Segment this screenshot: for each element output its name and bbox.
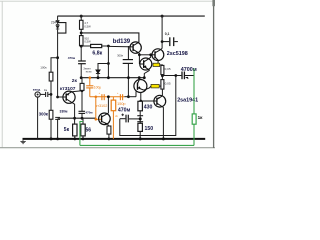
ground symbol [20, 139, 25, 144]
node dot feedback [139, 117, 142, 120]
wire [80, 64, 82, 78]
input connector J1 [35, 92, 40, 97]
svg-text:234: 234 [51, 21, 57, 25]
capacitor C 0,1 [162, 37, 178, 46]
wire Q6 emitter to 2k [72, 90, 82, 93]
capacitor C 100u orange [86, 85, 93, 87]
node dot [97, 76, 100, 79]
wire [57, 119, 59, 138]
node dot [80, 76, 83, 79]
wire Q2 collector up [149, 55, 151, 59]
wire between resistors [80, 29, 82, 35]
transistor Q2 driver [139, 58, 151, 70]
resistor R 1k green [192, 114, 196, 124]
wire 2k top [81, 78, 83, 84]
svg-text:330м: 330м [60, 110, 69, 114]
node dot on output wire [174, 74, 177, 77]
wire cap to bias wire [81, 113, 83, 118]
svg-text:0,05: 0,05 [165, 67, 171, 71]
resistor R 0,05 top [161, 65, 164, 74]
svg-text:0,5W: 0,5W [84, 24, 91, 28]
wire 5k leads [74, 136, 76, 139]
wire Q5 collector down to rail [162, 107, 163, 139]
wire 150 to rail [139, 131, 141, 139]
node dot [149, 53, 152, 56]
resistor R emitter [107, 126, 111, 134]
wire Q3 collector to rail [161, 16, 163, 50]
diode D x98 [96, 70, 100, 74]
node dot [73, 117, 76, 120]
wire input to C [40, 93, 45, 95]
wire C to node [48, 93, 51, 95]
node dot [107, 95, 110, 98]
wire bias y118.2 [58, 117, 96, 119]
node dot [80, 32, 83, 35]
node dot [127, 76, 130, 79]
wire input connector ground leg [37, 97, 39, 139]
resistor R 430 [138, 101, 143, 111]
wire [97, 74, 99, 78]
node dot on rail [50, 137, 53, 140]
node dot [107, 45, 110, 48]
node dot [127, 95, 130, 98]
svg-text:6,8к: 6,8к [92, 50, 102, 56]
wire Q4 bottom node [140, 92, 142, 101]
wire Q7 emitter to resistor [107, 124, 109, 126]
transistor Q6 kt3107 [63, 91, 75, 103]
capacitor C input 1u [46, 92, 48, 97]
wire green bottom [80, 144, 194, 146]
wire orange drop to kt3102 base [95, 97, 97, 120]
node dot [162, 137, 165, 140]
svg-text:2sa1941: 2sa1941 [177, 98, 198, 104]
svg-text:вход: вход [33, 87, 40, 91]
node dot rail [161, 15, 164, 18]
svg-text:кт3102: кт3102 [96, 104, 108, 108]
wire horizontal y77.7 [81, 77, 144, 79]
wire output to C4700 [162, 75, 181, 77]
wire to Q3 base [139, 54, 155, 56]
svg-text:56: 56 [86, 127, 92, 133]
node dot [107, 76, 110, 79]
tick mark upper [137, 115, 143, 117]
wire green feedback tap [80, 122, 83, 146]
wire left vertical node x57.6 [57, 16, 59, 20]
wire down x81.2 [80, 46, 82, 61]
fuse F1 yellow [153, 63, 160, 66]
svg-text:430: 430 [144, 105, 153, 111]
wire orange [89, 88, 91, 97]
wire x108.4 to y77.7 [107, 64, 109, 78]
node dot C 0,1 tap [161, 40, 164, 43]
wire orange resistor stem [112, 97, 114, 100]
capacitor on x57.6 line [55, 117, 60, 119]
node dot orange tap [89, 76, 92, 79]
svg-text:0,5W: 0,5W [84, 40, 91, 44]
wire Q5 emitter up [161, 89, 163, 96]
wire Q6 collector down [72, 103, 75, 125]
wire between 0,05 [161, 75, 163, 80]
svg-text:0,05: 0,05 [165, 82, 171, 86]
wire [50, 119, 52, 139]
svg-text:на вх: на вх [86, 71, 93, 74]
wire Q3 emitter to fuse [157, 60, 159, 63]
node dot [56, 56, 59, 59]
wire [50, 81, 52, 110]
transistor Q4 driver pnp [134, 80, 151, 93]
resistor R 0,05 bottom [161, 80, 164, 90]
border frame bottom [0, 147, 215, 149]
wire feed to bd139 collector [81, 33, 139, 42]
wire orange y96.8 [90, 96, 125, 98]
wire x108.4 down [107, 46, 109, 64]
border frame right [213, 0, 215, 148]
wire 430 to junction [139, 111, 141, 124]
svg-text:100μ: 100μ [94, 85, 102, 89]
svg-text:100к: 100к [40, 66, 47, 70]
wire fuse right lead [159, 85, 161, 87]
border frame top [0, 0, 215, 2]
resistor R 56 [81, 124, 85, 136]
node dot base [56, 96, 59, 99]
wire to node [102, 45, 109, 47]
top supply rail [57, 15, 204, 17]
wire to 6,8k [81, 45, 90, 47]
node input junction [50, 93, 53, 96]
transistor Q7 kt3102 [99, 113, 111, 125]
capacitor C 470m electrolytic [120, 114, 140, 123]
wire to Q5 base [141, 100, 157, 102]
resistor R 2k [80, 83, 84, 90]
svg-text:150р: 150р [117, 102, 125, 106]
transistor Q5 2sa1941 [154, 95, 166, 107]
svg-text:1м: 1м [44, 88, 47, 92]
resistor R 47 0.5W [80, 20, 84, 29]
resistor R 6,8k horizontal [91, 44, 102, 47]
svg-text:470м: 470м [86, 111, 93, 115]
resistor R 150 [138, 123, 143, 131]
wire bypass loop around D1 [58, 23, 66, 33]
node dot rail x57.6 [56, 138, 59, 141]
svg-text:470м: 470м [68, 56, 76, 60]
svg-text:150: 150 [145, 126, 154, 132]
wire green below 1k [193, 124, 195, 145]
capacitor C 300n [123, 46, 133, 63]
svg-text:0,1: 0,1 [165, 32, 170, 36]
transistor Q3 2sc5198 [152, 49, 164, 61]
corner block top right [212, 0, 215, 6]
resistor R 300k [49, 110, 53, 119]
resistor R 100k [49, 72, 53, 81]
wire to 100k [51, 58, 58, 72]
wire 56 leads [82, 118, 84, 124]
svg-text:300к: 300к [39, 111, 49, 116]
svg-text:470м: 470м [118, 107, 131, 113]
diode pair D1 (element 234) [56, 21, 59, 29]
svg-text:5к: 5к [64, 127, 70, 133]
node dot rail x81.2 [80, 15, 83, 18]
green output net [80, 68, 196, 145]
orange stage [86, 76, 125, 139]
svg-text:bd139: bd139 [113, 39, 131, 45]
wire feedback path down-right [120, 76, 176, 136]
node dot [138, 53, 141, 56]
resistor R orange [111, 100, 116, 111]
capacitor C1 orange [101, 94, 103, 100]
svg-text:1к: 1к [198, 115, 204, 120]
wire green vertical from output [193, 68, 195, 114]
wire Q4 collector tap [138, 78, 140, 80]
resistor R 5k [73, 124, 77, 136]
node dot [143, 76, 146, 79]
resistor R 910 0.5W [80, 36, 84, 46]
wire Q1 emitter down [138, 53, 140, 64]
capacitor C2 orange [119, 94, 121, 100]
node dot output [161, 74, 164, 77]
capacitor C 470m small [79, 111, 86, 113]
node dot [139, 100, 142, 103]
node dot [80, 45, 83, 48]
wire orange down [89, 78, 91, 86]
wire Q7 collector up [107, 97, 109, 113]
svg-text:2sc5198: 2sc5198 [167, 51, 188, 57]
wire Q6 base [58, 96, 67, 98]
wire fuse to R 0,05 [160, 64, 163, 67]
transistor Q1 bd139 [130, 42, 141, 54]
fuse F2 yellow [151, 84, 159, 88]
bottom ground rail [23, 138, 206, 140]
node dot [81, 89, 84, 92]
wire [80, 16, 82, 20]
wire C300n down [127, 63, 129, 96]
svg-text:300н: 300н [117, 53, 123, 57]
wire [57, 30, 59, 98]
border frame left [1, 1, 3, 148]
node dot orange [95, 96, 98, 99]
tick mark lower [137, 121, 143, 123]
wire Q4 base from left [125, 96, 137, 98]
wire y63.5 to diode [98, 64, 108, 70]
svg-text:2к: 2к [72, 78, 78, 84]
wire base bd139 [108, 45, 133, 48]
capacitor C 4700m [182, 72, 194, 80]
node dot [139, 137, 142, 140]
wire to rail [108, 134, 110, 139]
wire 2k node down to cap [81, 91, 83, 111]
wire Q2 emitter down [144, 70, 149, 77]
node dot [107, 62, 110, 65]
capacitor C 470n [78, 61, 86, 64]
node dot [81, 117, 84, 120]
